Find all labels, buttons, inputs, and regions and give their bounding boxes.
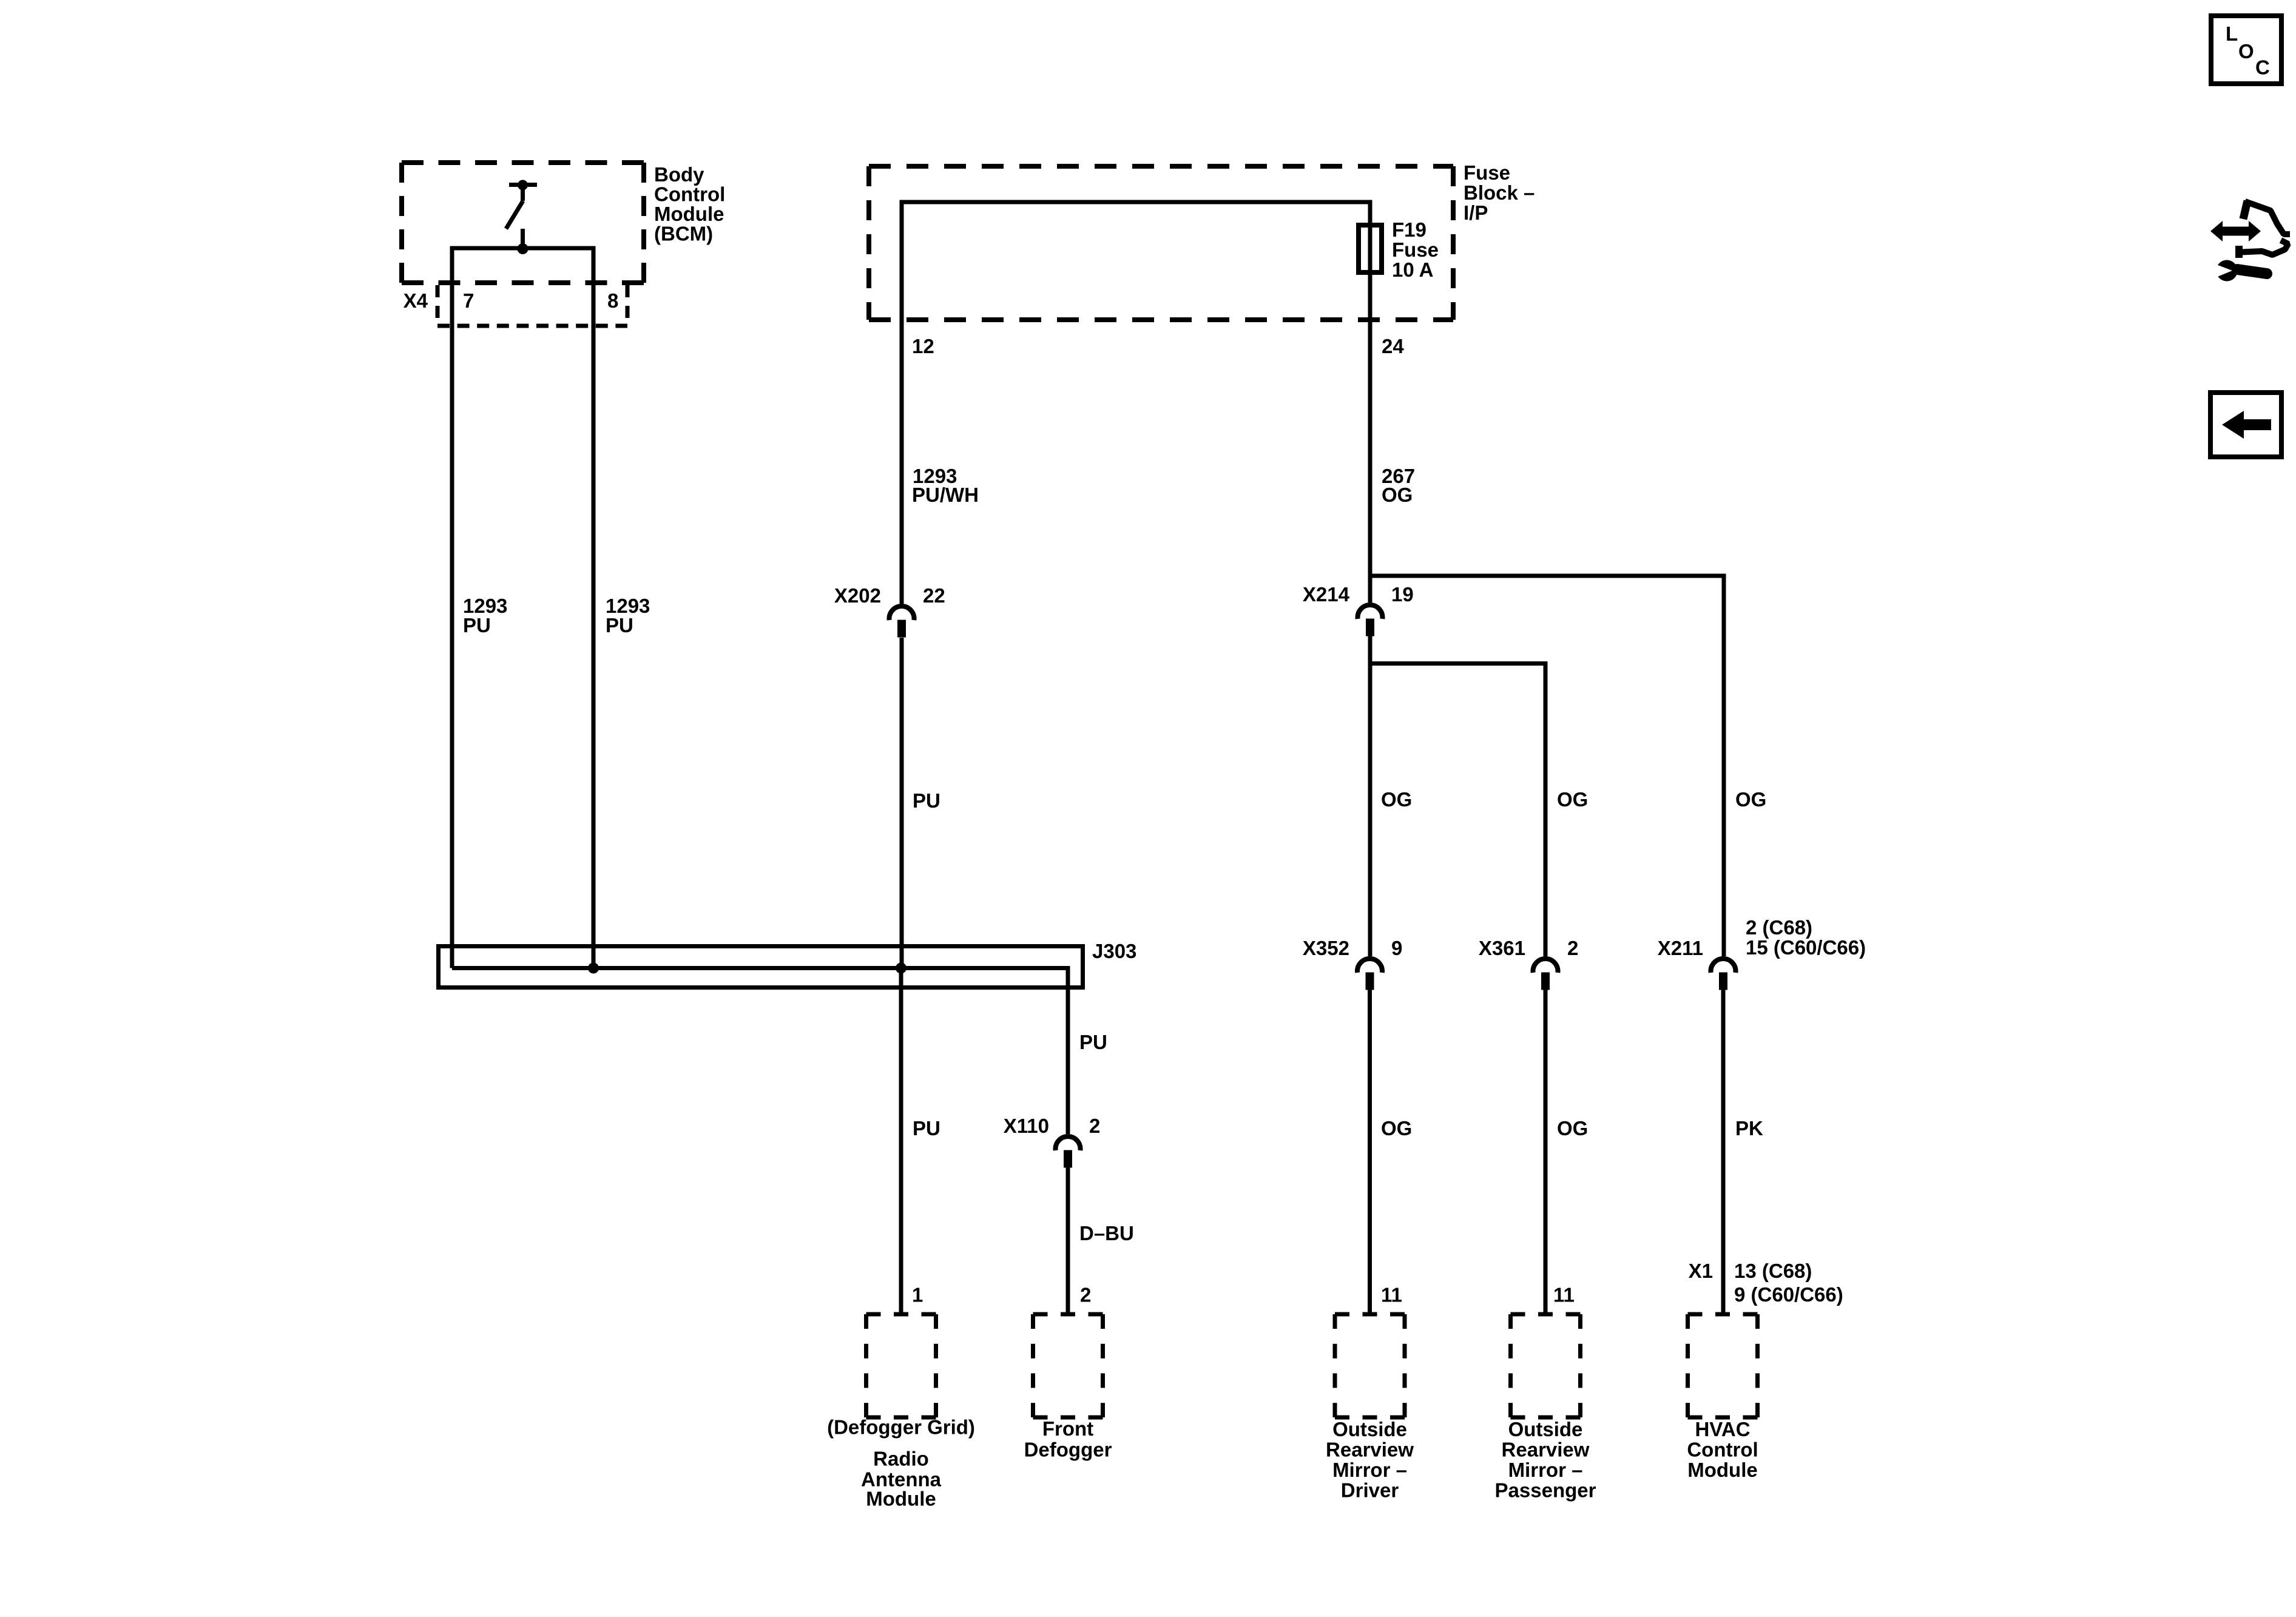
- svg-text:I/P: I/P: [1464, 201, 1488, 224]
- svg-text:J303: J303: [1092, 940, 1136, 962]
- svg-text:PK: PK: [1735, 1117, 1763, 1139]
- svg-text:PU: PU: [913, 1117, 940, 1139]
- svg-text:12: 12: [912, 335, 934, 357]
- svg-text:Module: Module: [866, 1488, 936, 1510]
- svg-text:Block –: Block –: [1464, 181, 1535, 204]
- svg-text:Radio: Radio: [873, 1448, 929, 1470]
- svg-text:15 (C60/C66): 15 (C60/C66): [1746, 936, 1866, 959]
- svg-text:X361: X361: [1479, 937, 1525, 959]
- svg-text:Outside: Outside: [1332, 1418, 1407, 1440]
- svg-text:Mirror –: Mirror –: [1508, 1459, 1583, 1481]
- svg-text:X352: X352: [1303, 937, 1349, 959]
- svg-text:X4: X4: [403, 289, 428, 312]
- svg-text:Front: Front: [1042, 1417, 1093, 1440]
- svg-text:O: O: [2238, 40, 2254, 62]
- svg-text:2: 2: [1567, 937, 1578, 959]
- svg-text:Module: Module: [1687, 1459, 1757, 1481]
- svg-text:PU: PU: [913, 789, 940, 812]
- svg-text:11: 11: [1553, 1284, 1575, 1306]
- svg-text:X202: X202: [834, 584, 881, 607]
- svg-text:Control: Control: [654, 183, 725, 206]
- svg-text:Body: Body: [654, 163, 704, 186]
- svg-text:X110: X110: [1004, 1115, 1049, 1137]
- svg-text:OG: OG: [1381, 1117, 1412, 1139]
- svg-text:PU/WH: PU/WH: [912, 484, 979, 506]
- svg-text:X1: X1: [1689, 1260, 1713, 1282]
- svg-text:10 A: 10 A: [1392, 258, 1433, 281]
- svg-text:Mirror –: Mirror –: [1332, 1459, 1407, 1481]
- svg-text:D–BU: D–BU: [1079, 1222, 1134, 1244]
- svg-text:PU: PU: [463, 614, 491, 636]
- svg-text:L: L: [2226, 22, 2238, 45]
- svg-text:9 (C60/C66): 9 (C60/C66): [1734, 1283, 1843, 1306]
- svg-text:2: 2: [1080, 1284, 1091, 1306]
- svg-text:(Defogger Grid): (Defogger Grid): [827, 1416, 975, 1439]
- svg-text:7: 7: [463, 289, 474, 312]
- svg-text:Outside: Outside: [1508, 1418, 1583, 1440]
- svg-text:Passenger: Passenger: [1495, 1479, 1596, 1501]
- svg-text:PU: PU: [1079, 1031, 1107, 1053]
- svg-text:Fuse: Fuse: [1464, 161, 1510, 184]
- svg-text:19: 19: [1391, 583, 1414, 606]
- svg-text:2 (C68): 2 (C68): [1746, 916, 1812, 939]
- svg-text:F19: F19: [1392, 218, 1427, 241]
- svg-text:Defogger: Defogger: [1024, 1439, 1112, 1461]
- svg-text:(BCM): (BCM): [654, 223, 713, 245]
- svg-text:Control: Control: [1687, 1439, 1758, 1461]
- svg-text:X211: X211: [1658, 937, 1703, 959]
- svg-text:Fuse: Fuse: [1392, 238, 1439, 261]
- svg-text:1: 1: [912, 1284, 923, 1306]
- svg-text:OG: OG: [1382, 484, 1413, 506]
- svg-text:C: C: [2255, 56, 2270, 79]
- svg-text:X214: X214: [1303, 583, 1350, 606]
- svg-text:22: 22: [923, 584, 945, 607]
- svg-text:9: 9: [1391, 937, 1402, 959]
- svg-text:PU: PU: [606, 614, 633, 636]
- svg-text:Rearview: Rearview: [1326, 1439, 1414, 1461]
- svg-text:OG: OG: [1557, 1117, 1588, 1139]
- svg-text:OG: OG: [1381, 788, 1412, 811]
- svg-text:Driver: Driver: [1341, 1479, 1399, 1501]
- svg-text:8: 8: [607, 289, 618, 312]
- svg-text:24: 24: [1382, 335, 1404, 357]
- svg-text:11: 11: [1381, 1284, 1402, 1306]
- svg-text:13 (C68): 13 (C68): [1734, 1260, 1812, 1282]
- svg-text:Rearview: Rearview: [1502, 1439, 1590, 1461]
- svg-text:HVAC: HVAC: [1695, 1418, 1750, 1440]
- svg-text:OG: OG: [1735, 788, 1766, 811]
- svg-text:OG: OG: [1557, 788, 1588, 811]
- svg-text:2: 2: [1089, 1115, 1100, 1137]
- svg-text:Module: Module: [654, 203, 724, 225]
